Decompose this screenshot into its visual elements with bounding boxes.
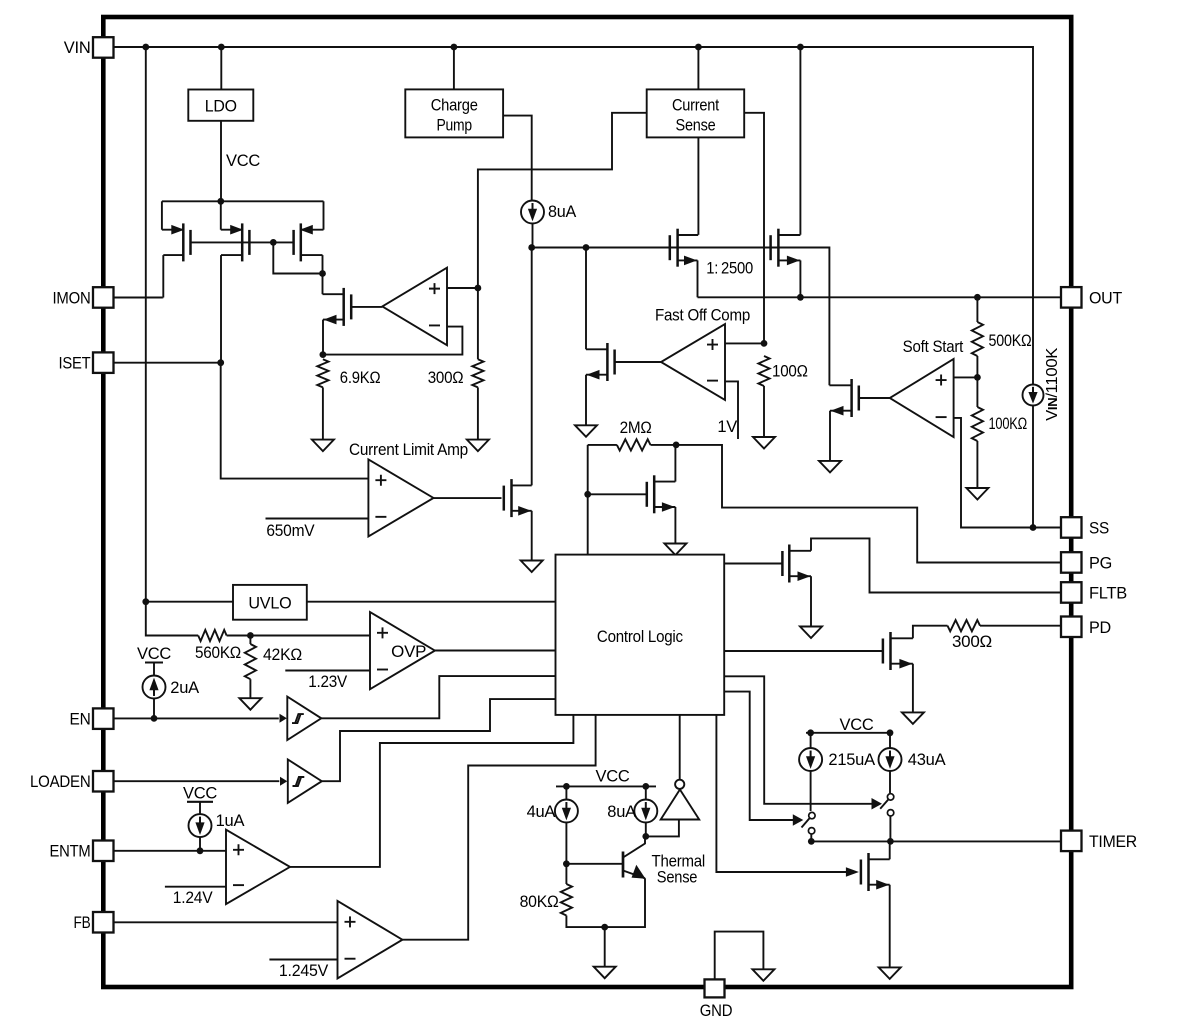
svg-text:VCC: VCC (183, 785, 217, 803)
wire EN input (114, 717, 279, 719)
current source 215uA (799, 748, 822, 771)
transistor M2 (mirror PMOS middle) (221, 223, 250, 261)
resistor 80K (561, 884, 572, 916)
svg-text:Pump: Pump (436, 117, 472, 135)
wire VCC to 1uA (199, 802, 201, 814)
gate thermal inverter (661, 780, 700, 820)
svg-text:215uA: 215uA (828, 751, 875, 769)
wire OVP output to Control Logic (435, 650, 556, 652)
wire (724, 692, 793, 820)
junction TIMER/SW1 (808, 838, 815, 845)
svg-text:FLTB: FLTB (1089, 585, 1127, 603)
svg-text:Control Logic: Control Logic (597, 628, 683, 646)
junction 100 ohm node (761, 340, 768, 347)
svg-text:1.23V: 1.23V (308, 673, 347, 691)
svg-text:1: 2500: 1: 2500 (706, 260, 753, 278)
svg-text:100Ω: 100Ω (772, 363, 808, 381)
svg-text:SS: SS (1089, 520, 1109, 538)
wire M6 source to ground (585, 375, 587, 426)
wire Soft Start output to M9 gate (859, 397, 890, 399)
svg-text:PD: PD (1089, 619, 1111, 637)
svg-text:1uA: 1uA (216, 812, 245, 830)
junction ENTM / 1uA (197, 847, 204, 854)
wire M9 source to ground (829, 411, 831, 461)
transistor M9 (soft-start pulldown NMOS) (830, 379, 859, 417)
wire LOADEN buffer to Control Logic (322, 699, 556, 781)
wire cascode drain (322, 274, 324, 295)
wire 6.9K to ground (322, 387, 324, 439)
wire 1.24V reference (165, 886, 226, 888)
wire M2 source (220, 201, 222, 229)
wire LOADEN input (114, 780, 280, 782)
wire FB input (114, 921, 338, 923)
wire buffer output to M4 gate (351, 306, 382, 308)
junction VIN/LDO branch (218, 44, 225, 51)
svg-text:FB: FB (74, 914, 91, 932)
wire inverter output to Control Logic (679, 715, 681, 780)
wire M3 source (323, 201, 325, 229)
current source 1uA (189, 814, 212, 837)
op-amp Current Limit Amp (368, 459, 433, 536)
ground (M10) (664, 544, 686, 556)
pin FB (93, 912, 114, 933)
wire M2 drain to ISET node (220, 255, 222, 363)
transistor M13 (TIMER discharge NMOS) (861, 853, 890, 891)
VCC supply tap (1uA) (183, 785, 217, 803)
junction 6.9K top (320, 351, 327, 358)
junction mirror gates (270, 239, 277, 246)
svg-text:VCC: VCC (226, 152, 260, 170)
pin SS (1061, 517, 1082, 538)
wire UVLO output to Control Logic (307, 601, 556, 603)
wire OUT to 500K (976, 297, 978, 322)
junction VCC/4uA (563, 783, 570, 790)
svg-text:OUT: OUT (1089, 289, 1122, 307)
junction VIN/UVLO branch (142, 44, 149, 51)
junction OUT / 500K divider (974, 294, 981, 301)
svg-text:500KΩ: 500KΩ (989, 332, 1032, 350)
wire TIMER rail to TIMER pin (811, 840, 1061, 842)
wire 2M left (588, 444, 617, 446)
pin PG (1061, 552, 1082, 573)
current source 2uA (143, 676, 166, 699)
wire IMON to mirror (114, 297, 163, 299)
resistor 500K (972, 322, 983, 356)
junction cascode drain node (319, 270, 326, 277)
transistor M5 (current limit pulldown NMOS) (504, 479, 532, 517)
wire VIN to 560K (146, 602, 198, 636)
junction gate node / CL pulldown (528, 244, 535, 251)
svg-text:8uA: 8uA (548, 203, 576, 221)
transistor M4 (IMON cascode NMOS) (323, 288, 352, 326)
current source VIN/1100K (1023, 385, 1044, 406)
wire 215uA to switch SW1 (810, 771, 812, 811)
wire collector to inverter input (646, 820, 679, 837)
comparator OVP (370, 612, 435, 689)
transistor M11 (FLTB pulldown NMOS) (782, 545, 811, 583)
wire OUT rail (698, 296, 1062, 298)
resistor 300 ohm (IMON) (472, 359, 483, 387)
pin IMON (93, 287, 114, 308)
transistor M8 (sense FET) (771, 229, 801, 267)
wire LDO output VCC (220, 121, 222, 202)
wire Charge Pump output to 8uA source (503, 116, 532, 201)
wire CL amp output to M5 gate (434, 497, 502, 499)
wire VCC rail (timer) (806, 732, 893, 734)
wire M5 source to ground (531, 511, 533, 561)
resistor 100K (972, 407, 983, 441)
junction collector node (642, 833, 649, 840)
op-amp Fast Off Comp (661, 324, 725, 400)
resistor 100 ohm (758, 356, 769, 386)
svg-text:Soft Start: Soft Start (903, 338, 964, 356)
pin OUT (1061, 287, 1082, 308)
wire 500K to 100K (976, 356, 978, 407)
VCC supply tap (2uA) (137, 645, 171, 663)
svg-text:2MΩ: 2MΩ (620, 419, 652, 437)
wire M12 drain to 300 ohm (913, 626, 948, 639)
svg-text:EN: EN (70, 710, 91, 728)
VCC label (timer) (839, 716, 873, 734)
svg-text:Fast Off Comp: Fast Off Comp (655, 307, 750, 325)
svg-text:1.24V: 1.24V (173, 889, 213, 907)
svg-text:1V: 1V (717, 418, 737, 436)
wire Fast Off Comp + input (725, 342, 764, 344)
ground (M13) (879, 967, 901, 979)
op-amp Soft Start (890, 359, 954, 437)
wire Control Logic to M13 gate (716, 715, 847, 872)
wire Current Sense to sense FET drain (697, 137, 699, 234)
svg-text:VIN/1100K: VIN/1100K (1044, 347, 1061, 421)
transistor M1 (mirror PMOS left) (162, 223, 191, 261)
wire Soft Start - to SS pin (954, 418, 1061, 528)
wire 100 ohm to ground (763, 386, 765, 437)
resistor 300 ohm (PD) (948, 620, 981, 631)
wire M7 source to OUT (697, 260, 699, 297)
current source 8uA (gate drive) (521, 201, 544, 224)
wire 1.23V reference (285, 670, 370, 672)
junction VIN/charge-pump branch (451, 44, 458, 51)
svg-text:LDO: LDO (205, 98, 237, 116)
wire Control Logic to M12 gate (724, 650, 883, 652)
wire Fast Off Comp output to M6 gate (615, 361, 661, 363)
svg-text:100KΩ: 100KΩ (989, 415, 1028, 433)
wire VIN rail from VIN pin to VIN/1100K source (114, 47, 1033, 384)
svg-text:4uA: 4uA (527, 803, 556, 821)
svg-text:560KΩ: 560KΩ (195, 644, 241, 662)
junction TIMER/SW2 (887, 838, 894, 845)
svg-text:ISET: ISET (59, 355, 91, 373)
wire gate node to fast-off FET drain (585, 248, 587, 350)
wire VIN to Charge Pump (453, 47, 455, 89)
svg-text:650mV: 650mV (266, 522, 314, 540)
block Charge Pump (405, 89, 503, 137)
resistor 560K (198, 630, 226, 641)
svg-text:1.245V: 1.245V (279, 962, 328, 980)
wire UVLO input (146, 601, 233, 603)
svg-text:Charge: Charge (431, 97, 478, 115)
wire Current Sense output to amp supply node (478, 113, 647, 288)
wire buffer - feedback to 6.9K (323, 327, 463, 355)
wire 560K to tap (227, 635, 251, 637)
wire divider tap to Soft Start + (954, 376, 978, 378)
wire mirror VCC rail (162, 200, 324, 202)
svg-text:42KΩ: 42KΩ (263, 646, 302, 664)
wire PG net to PG pin (676, 445, 1061, 563)
current source 43uA (879, 748, 902, 771)
svg-text:VCC: VCC (137, 645, 171, 663)
wire to 215uA (810, 733, 812, 748)
wire 1V reference (725, 381, 738, 439)
wire 100K to ground (976, 441, 978, 488)
wire 2M node to Control Logic (587, 445, 589, 555)
junction 2M / M10 drain / PG (673, 442, 680, 449)
wire SW2 to TIMER node (889, 816, 891, 841)
junction UVLO input (142, 598, 149, 605)
wire to 8uA (645, 786, 647, 801)
block UVLO (233, 585, 307, 620)
comparator FB (338, 901, 403, 979)
ground (M11) (800, 627, 822, 639)
wire ENTM input (114, 850, 226, 852)
pin PD (1061, 617, 1082, 638)
wire 2uA to EN (153, 699, 155, 719)
resistor 42K (245, 644, 256, 679)
wire M13 drain to TIMER (889, 841, 891, 859)
wire M1 drain to IMON (162, 255, 164, 297)
junction VIN/current-sense branch (695, 44, 702, 51)
ground (GND pin) (752, 969, 774, 981)
svg-text:PG: PG (1089, 555, 1112, 573)
pin TIMER (1061, 831, 1082, 852)
pin FLTB (1061, 582, 1082, 603)
wire 300 ohm to ground (477, 387, 479, 439)
wire VIN to Current Sense (697, 47, 699, 90)
comparator ENTM (226, 830, 290, 904)
wire M4 source to 6.9K (322, 320, 324, 355)
resistor 6.9K (317, 359, 328, 387)
ground (6.9K) (312, 440, 334, 452)
wire tap to OVP + (250, 635, 370, 637)
wire FB comp to Control Logic (402, 715, 595, 940)
node Current Sense right output (743, 112, 745, 114)
junction base node (563, 860, 570, 867)
svg-text:VIN: VIN (64, 39, 91, 57)
wire M1 source (161, 201, 163, 229)
junction divider tap (974, 374, 981, 381)
svg-text:8uA: 8uA (607, 803, 636, 821)
wire VCC rail (thermal) (556, 785, 656, 787)
block LDO (188, 90, 253, 121)
wire VIN/1100K to SS (1032, 406, 1034, 528)
switch SW1 (215uA) (802, 812, 816, 834)
pin ISET (93, 352, 114, 373)
svg-text:300Ω: 300Ω (952, 633, 992, 651)
IC boundary box (103, 17, 1071, 987)
wire VIN to sense FET drain (799, 47, 801, 235)
ground (100K) (966, 488, 988, 500)
junction emitter / ground (601, 924, 608, 931)
wire ENTM comp to Control Logic (290, 715, 573, 867)
ground (M9) (819, 461, 841, 473)
wire 42K to ground (249, 679, 251, 698)
wire M10 drain to 2M (674, 445, 676, 482)
ground (300 ohm) (467, 440, 489, 452)
buffer EN Schmitt trigger (280, 697, 322, 741)
svg-text:43uA: 43uA (908, 751, 946, 769)
transistor Q1 (thermal sense NPN) (566, 836, 645, 878)
svg-text:Current Limit Amp: Current Limit Amp (349, 441, 468, 459)
svg-text:80KΩ: 80KΩ (520, 893, 559, 911)
transistor M10 (gate monitor NMOS) (647, 475, 676, 513)
pin LOADEN (93, 771, 114, 792)
ground (M12) (902, 712, 924, 724)
wire to ground (604, 927, 606, 967)
buffer LOADEN Schmitt trigger (280, 759, 322, 803)
wire 650mV reference (266, 518, 369, 520)
pin VIN (93, 37, 114, 58)
junction gate node / fast-off pulldown (583, 244, 590, 251)
wire 80K to emitter (566, 878, 645, 927)
svg-text:VCC: VCC (595, 768, 629, 786)
op-amp IMON buffer (382, 268, 447, 346)
wire VIN to UVLO input (145, 47, 147, 602)
junction EN / 2uA (151, 715, 158, 722)
wire M12 source to ground (912, 664, 914, 713)
pin GND (705, 979, 725, 997)
junction buffer + / 300 ohm (475, 285, 482, 292)
wire M13 source to ground (889, 885, 891, 968)
ground (M5) (521, 561, 543, 573)
ground (M6) (575, 425, 597, 437)
svg-text:GND: GND (700, 1002, 733, 1020)
junction M10 gate (584, 491, 591, 498)
wire M10 source to ground (674, 507, 676, 544)
wire EN buffer to Control Logic (321, 676, 555, 718)
wire M11 source to ground (810, 576, 812, 626)
pin EN (93, 708, 114, 729)
junction OUT / sense FET (797, 294, 804, 301)
wire 8uA to gate node (532, 224, 534, 248)
svg-text:2uA: 2uA (170, 679, 199, 697)
junction VCC/43uA (887, 729, 894, 736)
ground (thermal) (594, 967, 616, 979)
wire buffer + input (447, 287, 478, 289)
svg-text:IMON: IMON (53, 290, 91, 308)
wire mirror gate tie (191, 241, 294, 243)
wire 2M right (651, 444, 677, 446)
resistor 2M (617, 439, 651, 450)
wire GND pin to ground (715, 932, 764, 980)
wire Control Logic to M11 gate (724, 563, 782, 565)
wire to 43uA (889, 733, 891, 748)
wire gate drive node (532, 248, 830, 386)
svg-text:UVLO: UVLO (248, 595, 291, 613)
wire gate tie to cascode node (273, 242, 322, 273)
wire ISET (114, 362, 221, 364)
svg-text:Sense: Sense (676, 117, 716, 135)
wire Current Sense to Fast Off Comp input (744, 113, 764, 344)
current source 8uA (thermal) (634, 800, 657, 823)
svg-text:LOADEN: LOADEN (30, 773, 91, 791)
wire 1uA to ENTM (199, 837, 201, 851)
transistor M12 (PD pulldown NMOS) (883, 632, 913, 670)
wire ISET to Current Limit Amp + (221, 363, 369, 479)
svg-text:OVP: OVP (391, 643, 426, 661)
transistor M6 (fast-off pulldown NMOS) (586, 343, 615, 381)
junction ISET node (217, 359, 224, 366)
wire gate node to current-limit FET drain (531, 248, 533, 486)
wire M11 drain to FLTB pin (811, 538, 1061, 592)
transistor M3 (mirror PMOS right) (294, 223, 324, 261)
junction VIN/pass-FET branch (797, 44, 804, 51)
junction SS / 1100K source (1030, 524, 1037, 531)
label Thermal Sense (652, 853, 706, 887)
wire M8 source to OUT (799, 260, 801, 297)
block Control Logic (556, 555, 725, 715)
junction 560K/42K tap (247, 632, 254, 639)
wire VCC to 2uA (153, 663, 155, 676)
wire (724, 676, 871, 804)
ground (42K) (239, 698, 261, 710)
junction VCC rail / LDO (217, 198, 224, 205)
wire VIN to LDO (220, 47, 222, 90)
ground (100 ohm) (753, 437, 775, 449)
wire 4uA to base node (565, 822, 567, 864)
wire 8uA to collector node (645, 822, 647, 837)
junction VCC/215uA (807, 729, 814, 736)
svg-text:ENTM: ENTM (50, 843, 91, 861)
wire to 4uA (565, 786, 567, 801)
svg-text:Current: Current (672, 97, 720, 115)
block Current Sense (647, 89, 745, 137)
svg-text:6.9KΩ: 6.9KΩ (340, 369, 381, 387)
wire 1.245V reference (269, 959, 337, 961)
wire 300 ohm top (477, 288, 479, 359)
wire M3 drain down (322, 255, 324, 273)
wire SW1 to TIMER node (810, 834, 812, 841)
pin ENTM (93, 841, 114, 862)
transistor M7 (pass FET) (670, 229, 698, 267)
junction VCC/8uA (642, 783, 649, 790)
wire 300 ohm to PD pin (980, 625, 1061, 627)
current source 4uA (555, 800, 578, 823)
switch SW2 (43uA) (880, 794, 894, 816)
svg-text:TIMER: TIMER (1089, 833, 1137, 851)
svg-text:VCC: VCC (839, 716, 873, 734)
svg-text:Sense: Sense (657, 869, 698, 887)
svg-text:300Ω: 300Ω (428, 369, 464, 387)
VCC rail (thermal sense) (595, 768, 629, 787)
wire to M10 gate (588, 493, 647, 495)
wire 43uA to switch SW2 (889, 771, 891, 793)
